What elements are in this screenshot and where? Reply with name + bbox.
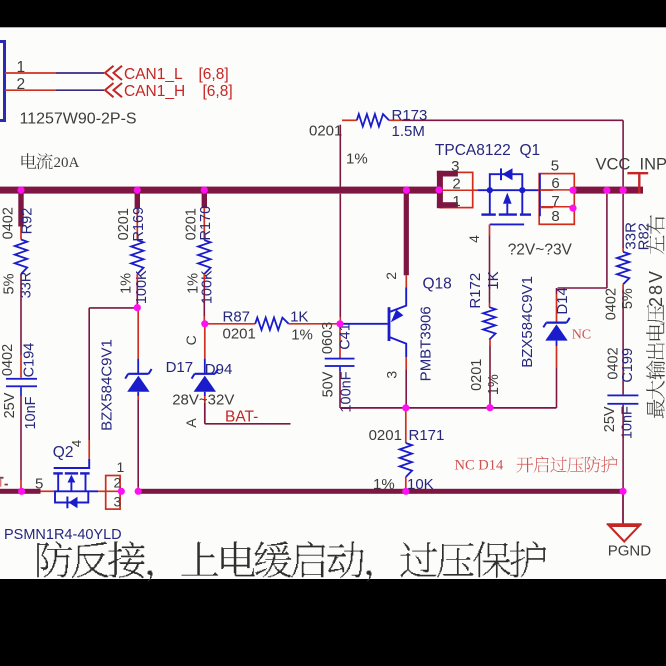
svg-text:C199: C199: [620, 348, 636, 383]
wire to R170: [203, 208, 205, 240]
top power bus (thick) left segment: [0, 187, 439, 194]
svg-text:C: C: [183, 335, 199, 345]
lower ground bus (thick): [0, 489, 41, 494]
Q2 pin box (pins 1,2,3): [106, 476, 120, 510]
svg-text:1K: 1K: [290, 308, 308, 325]
Q1 gate line: [490, 223, 524, 225]
svg-text:0201: 0201: [309, 123, 342, 140]
svg-text:25V: 25V: [602, 406, 618, 432]
junction dots mid nodes: [134, 304, 141, 311]
svg-text:2: 2: [383, 272, 399, 280]
ground symbol PGND: [607, 524, 642, 541]
svg-text:PMBT3906: PMBT3906: [418, 306, 435, 381]
junction dots top bus: [17, 186, 24, 193]
svg-text:100K: 100K: [134, 270, 150, 304]
capacitor C199 10nF 25V 0402: [607, 395, 638, 397]
svg-text:3: 3: [384, 371, 400, 379]
svg-text:1: 1: [452, 193, 460, 210]
pin stubs: [540, 189, 553, 191]
wire to BAT-: [204, 403, 206, 424]
svg-text:R169: R169: [131, 207, 147, 242]
resistor R87 1K 0201: [208, 323, 256, 325]
svg-text:D94: D94: [205, 361, 233, 378]
Q1 channel: [489, 190, 491, 214]
off-page arrow T-: [0, 477, 4, 479]
svg-text:[6,8]: [6,8]: [199, 66, 229, 83]
note 电流20A: [21, 153, 36, 168]
wire R170 to node C: [203, 274, 205, 281]
capacitor C194 10nF 25V 0402: [6, 378, 37, 380]
capacitor C41 100nF 50V 0603: [339, 327, 341, 359]
svg-text:10nF: 10nF: [23, 396, 39, 429]
svg-text:R171: R171: [409, 427, 445, 444]
wire pin1 CAN1_L: [5, 72, 56, 74]
svg-text:28V: 28V: [646, 269, 666, 307]
Q2 gate entry: [54, 459, 89, 468]
wire pin2 CAN1_H: [5, 89, 56, 91]
svg-text:A: A: [183, 418, 199, 428]
wire R173 to VCC node: [402, 119, 623, 121]
wire R169 to node: [136, 274, 138, 281]
svg-text:D17: D17: [166, 359, 194, 376]
svg-text:5: 5: [35, 476, 43, 493]
Q2 S/D wire: [41, 490, 55, 492]
svg-text:0201: 0201: [223, 326, 256, 343]
svg-text:TPCA8122: TPCA8122: [435, 142, 511, 159]
svg-text:NC: NC: [572, 328, 591, 343]
zener diode (BZX584C9V1) below R169: [137, 311, 139, 359]
svg-text:20A: 20A: [54, 155, 80, 171]
svg-text:NC D14: NC D14: [455, 458, 504, 474]
svg-text:PGND: PGND: [608, 543, 652, 560]
svg-text:4: 4: [69, 440, 84, 447]
svg-text:0201: 0201: [469, 359, 485, 391]
wire from pin8 node down to D14/R82 elbow: [606, 194, 608, 288]
R169 thick stub: [135, 194, 140, 209]
wire to R169: [136, 208, 138, 240]
resistor R173 1.5M: [342, 119, 357, 121]
svg-text:50V: 50V: [321, 371, 337, 397]
Q1 left pin box (pins 3,2,1): [440, 172, 472, 207]
R170 thick stub: [202, 194, 207, 209]
Q18 symbol: [405, 275, 407, 287]
svg-text:100nF: 100nF: [339, 371, 355, 412]
note NC D14 开启过压防护 (glyphs above) / bottom title: [37, 541, 72, 577]
transistor Q18 PMBT3906 collector thick stub: [404, 194, 409, 276]
resistor R82 33R 0402: [622, 194, 624, 248]
svg-text:VCC_INPUT: VCC_INPUT: [596, 156, 666, 174]
svg-text:CAN1_H: CAN1_H: [124, 83, 185, 100]
svg-text:?2V~?3V: ?2V~?3V: [508, 242, 573, 259]
svg-text:Q1: Q1: [520, 142, 541, 159]
svg-text:BZX584C9V1: BZX584C9V1: [99, 339, 116, 431]
Q1 MOSFET internal wiring: [473, 189, 478, 191]
svg-text:BZX584C9V1: BZX584C9V1: [519, 276, 536, 368]
svg-text:[6,8]: [6,8]: [203, 83, 233, 100]
svg-text:D14: D14: [554, 287, 571, 315]
resistor R170 100K 0201: [198, 240, 210, 274]
svg-text:BAT-: BAT-: [225, 409, 258, 426]
Q18 base wire: [343, 323, 388, 325]
svg-text:11257W90-2P-S: 11257W90-2P-S: [20, 111, 137, 128]
svg-text:R92: R92: [20, 208, 36, 235]
svg-text:R173: R173: [392, 107, 428, 124]
zener diode D14 BZX584C9V1: [556, 288, 558, 294]
Q18 emitter wire down: [405, 357, 407, 369]
svg-text:R172: R172: [467, 273, 484, 309]
wire C194 to lower bus: [20, 387, 22, 396]
svg-text:CAN1_L: CAN1_L: [124, 66, 183, 83]
svg-text:1K: 1K: [485, 271, 502, 289]
svg-text:0402: 0402: [1, 207, 17, 239]
svg-text:1: 1: [117, 459, 125, 475]
svg-text:R87: R87: [223, 308, 251, 325]
connector J1 body (11257W90-2P-S): [0, 42, 5, 121]
off-page connector chevron CAN1_H: [105, 83, 114, 97]
wire node to Q2 gate (horizontal): [89, 307, 137, 309]
svg-text:1%: 1%: [486, 374, 502, 395]
svg-text:C194: C194: [22, 343, 38, 378]
svg-text:2: 2: [452, 176, 460, 193]
junction dots lower bus: [18, 488, 25, 495]
svg-text:0201: 0201: [369, 427, 402, 444]
top black band: [0, 0, 666, 27]
Q1 right pin box (pins 5,6,7,8): [539, 174, 574, 225]
resistor R169 100K 0201: [131, 240, 143, 274]
svg-text:1%: 1%: [346, 151, 368, 168]
bottom black band: [0, 579, 666, 666]
resistor R171 10K 0201: [405, 408, 407, 443]
wire Q2 gate vertical: [88, 308, 90, 440]
svg-text:5%: 5%: [620, 288, 636, 309]
off-page connector chevron CAN1_L: [105, 66, 114, 80]
PGND drop wire: [622, 494, 624, 524]
svg-text:Q18: Q18: [423, 275, 452, 292]
svg-text:25V: 25V: [2, 392, 18, 418]
svg-text:R170: R170: [198, 206, 214, 241]
svg-text:0603: 0603: [320, 322, 336, 354]
Q1 gate wire down to R172: [489, 224, 491, 235]
VCC_INPUT power tap: [627, 172, 648, 174]
resistor R92 33R 0402: [15, 240, 27, 275]
R92 thick stub: [18, 194, 23, 227]
svg-text:8: 8: [551, 208, 559, 225]
diode D17/D94 28V~32V: [204, 326, 206, 359]
svg-text:0402: 0402: [0, 344, 16, 376]
resistor R172 1K 0201: [483, 307, 495, 339]
svg-text:1.5M: 1.5M: [392, 123, 425, 140]
svg-text:28V~32V: 28V~32V: [172, 392, 234, 409]
top power bus (thick) right segment: [573, 187, 643, 194]
Q1 body diode loop: [490, 174, 523, 190]
node net y=408 horizontal wire: [340, 407, 556, 409]
svg-text:PSMN1R4-40YLD: PSMN1R4-40YLD: [4, 527, 122, 543]
svg-text:3: 3: [114, 494, 122, 510]
svg-text:100K: 100K: [200, 270, 216, 304]
svg-text:4: 4: [466, 235, 482, 243]
svg-text:6: 6: [551, 175, 559, 192]
Q1 drain tie line: [539, 174, 541, 217]
Q2 channel dashes: [53, 472, 63, 474]
svg-text:0201: 0201: [116, 208, 132, 240]
Q2 source/drain stubs: [57, 473, 59, 491]
svg-text:3: 3: [451, 158, 459, 175]
svg-text:10nF: 10nF: [619, 406, 635, 439]
svg-text:5%: 5%: [2, 273, 18, 294]
svg-text:1%: 1%: [291, 327, 313, 344]
svg-text:5: 5: [551, 157, 559, 174]
svg-text:0402: 0402: [604, 288, 620, 320]
svg-text:1%: 1%: [119, 273, 135, 294]
wire R173 left vertical (crosses bus, no junction): [339, 125, 341, 187]
wire to R92: [20, 227, 22, 240]
Q2 body diode: [55, 491, 88, 502]
Q1 thick tie bracket: [437, 171, 443, 208]
wire R92 to C194: [20, 274, 22, 356]
